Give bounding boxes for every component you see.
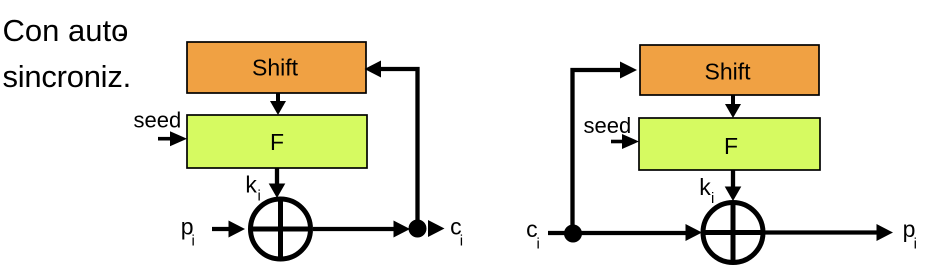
svg-text:F: F bbox=[724, 133, 738, 159]
svg-text:seed: seed bbox=[584, 113, 632, 138]
wire XOR to p_i output (right) bbox=[764, 230, 879, 234]
label k_i (left) bbox=[245, 172, 260, 205]
svg-text:sincroniz.: sincroniz. bbox=[3, 59, 131, 94]
svg-text:i: i bbox=[537, 236, 540, 253]
svg-text:i: i bbox=[460, 232, 463, 249]
wire c_i to XOR with junction (right) bbox=[548, 231, 688, 235]
wire F to XOR, label k_i (left) bbox=[275, 168, 279, 185]
label k_i (right) bbox=[699, 174, 714, 207]
wire Shift to F (right) bbox=[731, 95, 735, 105]
svg-text:Con auto: Con auto bbox=[3, 13, 129, 48]
wire seed into F (right) bbox=[611, 140, 624, 144]
svg-text:Shift: Shift bbox=[252, 55, 299, 81]
svg-text:Shift: Shift bbox=[704, 59, 751, 85]
label c_i (left output) bbox=[450, 213, 463, 249]
svg-text:i: i bbox=[711, 190, 714, 207]
label p_i (left) bbox=[181, 213, 195, 249]
wire seed into F (left) bbox=[158, 137, 171, 141]
wire Shift to F (left) bbox=[276, 93, 280, 102]
label c_i (right input) bbox=[526, 216, 540, 253]
XOR adder circle (right) bbox=[703, 203, 763, 263]
feedback wire junction up to Shift (left) bbox=[380, 69, 418, 229]
XOR adder circle (left) bbox=[251, 199, 311, 259]
F function box (left) bbox=[187, 115, 367, 168]
svg-text:i: i bbox=[192, 233, 195, 250]
svg-text:seed: seed bbox=[134, 108, 182, 133]
svg-text:i: i bbox=[914, 236, 917, 253]
svg-text:F: F bbox=[270, 129, 284, 155]
junction node dot (left) bbox=[409, 220, 427, 238]
wire F to XOR, arrow (right) bbox=[731, 170, 735, 188]
svg-text:i: i bbox=[258, 187, 261, 204]
title text line 1 "Con auto-" bbox=[3, 13, 129, 50]
junction node dot (right) bbox=[564, 225, 582, 243]
svg-text:-: - bbox=[118, 15, 128, 50]
shift register box (left) bbox=[187, 42, 366, 93]
shift register box (right) bbox=[640, 45, 819, 95]
svg-text:k: k bbox=[245, 172, 257, 198]
feedforward wire junction up to Shift (right) bbox=[573, 70, 623, 233]
label p_i (right output) bbox=[903, 216, 917, 253]
svg-text:k: k bbox=[699, 174, 711, 200]
F function box (right) bbox=[639, 118, 820, 170]
wire junction to c_i output (left) bbox=[428, 220, 445, 237]
wire p_i into XOR (left) bbox=[212, 227, 230, 231]
wire XOR to junction node (left) bbox=[313, 227, 396, 231]
